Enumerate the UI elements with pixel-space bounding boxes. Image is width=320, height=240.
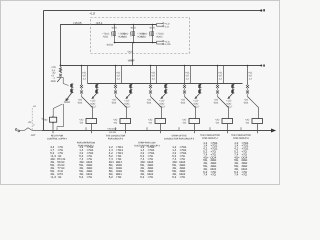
svg-text:-VΩ,7: -VΩ,7: [90, 105, 97, 108]
transistor Q10: [66, 93, 72, 101]
wire table 2 leader tick: [85, 127, 87, 130]
svg-text:RELAY FOR: RELAY FOR: [51, 134, 64, 137]
node relay K1 label: [79, 119, 84, 125]
svg-text:-5Ω4: -5Ω4: [243, 102, 249, 105]
node relay K10 label: [44, 118, 48, 121]
node contact labels group 6: [243, 99, 249, 105]
wire bus A to rail B connector group 5: [223, 66, 225, 84]
wire to relay K4: [195, 108, 197, 119]
svg-text:-5Ω4: -5Ω4: [111, 102, 117, 105]
svg-text:+1,Ω: +1,Ω: [165, 23, 170, 26]
wire group 2 tap: [115, 65, 117, 85]
relay K5: [222, 119, 233, 124]
wire +15 rail: [61, 25, 157, 66]
wire K5 to return bus: [227, 124, 229, 134]
contact S2b: [114, 91, 117, 97]
node cabinet boundary dashed: [31, 108, 33, 130]
node table 5 wire list: [172, 145, 187, 179]
node return bus labels: [107, 128, 117, 134]
svg-text:+7Ω: +7Ω: [116, 175, 122, 179]
wire distribution bus A: [60, 65, 265, 67]
svg-text:-VΩ,7: -VΩ,7: [124, 105, 131, 108]
svg-text:/V5Ω: /V5Ω: [122, 36, 127, 39]
node relay K4 label: [182, 119, 187, 125]
node table 4 wire list: [140, 145, 155, 179]
node table 2 wire list: [79, 145, 94, 179]
node input labels: [28, 105, 44, 137]
svg-text:FOR OPERATION: FOR OPERATION: [77, 141, 96, 144]
svg-text:/V5Ω: /V5Ω: [103, 36, 108, 39]
svg-text:2ΩΩ1: 2ΩΩ1: [64, 101, 71, 104]
node relay K3 label: [148, 119, 153, 125]
wire group 1 tap: [81, 65, 83, 85]
resistor value label R31: [140, 33, 147, 39]
node relay K5 label: [215, 119, 220, 125]
node junction bottom B3: [152, 42, 154, 44]
svg-text:-1,Ω: -1,Ω: [165, 25, 170, 28]
svg-text:FOR GROUP 2: FOR GROUP 2: [108, 137, 124, 140]
wire control link: [57, 78, 69, 86]
resistor R10 control sense chain: [59, 66, 61, 74]
contact S4a: [183, 85, 186, 91]
node coil labels group 5: [226, 99, 233, 108]
svg-text:+7Ω: +7Ω: [241, 173, 247, 177]
node -3011 label B2: [130, 27, 136, 30]
resistor R11: [111, 31, 112, 36]
node junction top B1: [114, 24, 116, 26]
resistor value label R21: [121, 33, 128, 39]
wire table 7 leader tick: [240, 127, 242, 130]
capacitor value label C11: [118, 33, 126, 39]
svg-text:+VΩΩ: +VΩΩ: [128, 59, 135, 62]
wire bus A to rail B connector group 2: [121, 66, 123, 84]
svg-text:-5Ω4: -5Ω4: [77, 102, 83, 105]
svg-text:7,4: 7,4: [234, 173, 238, 177]
node +V00 label: [128, 59, 135, 62]
svg-text:THE CONDUCTOR: THE CONDUCTOR: [200, 134, 220, 137]
node table 6 caption: [200, 134, 220, 140]
node table 3 caption: [106, 134, 126, 140]
svg-text:5,2: 5,2: [140, 175, 144, 179]
wire return bus: [42, 129, 276, 133]
svg-text:-1,ΩΩ: -1,ΩΩ: [165, 43, 171, 46]
node table 3 wire list: [109, 145, 124, 179]
wire contact diagonal group 1: [82, 97, 93, 108]
node table 6 wire list: [203, 141, 218, 177]
resistor R31: [149, 31, 150, 36]
svg-text:9ΩΩ4: 9ΩΩ4: [156, 36, 163, 39]
node group 6 bus labels: [248, 72, 253, 81]
svg-text:5,2: 5,2: [109, 175, 113, 179]
capacitor C21: [132, 25, 134, 43]
node contact labels group 1: [77, 99, 83, 105]
wire lower rail of filter: [115, 42, 157, 44]
relay K2: [120, 119, 131, 124]
contact S6a: [246, 85, 249, 91]
svg-text:+15,1: +15,1: [95, 21, 103, 25]
wire to relay K3: [161, 108, 163, 119]
wire control to relay: [53, 104, 62, 116]
svg-text:FOR GROUP-5: FOR GROUP-5: [233, 137, 249, 140]
wire table 3 leader tick: [115, 127, 117, 130]
node coil labels group 3: [159, 99, 166, 108]
terminal fork upper +1,0 / -1,0: [157, 23, 170, 29]
node -3011 label B3: [149, 27, 155, 30]
wire +18 supply bus: [44, 9, 265, 11]
node table 1 wire list: [50, 145, 66, 179]
node control sense labels: [51, 66, 57, 83]
svg-text:+7Ω: +7Ω: [179, 175, 185, 179]
wire input lead: [20, 128, 44, 131]
wire to relay K2: [126, 108, 128, 119]
dashed enclosure filter unit: [91, 18, 190, 54]
svg-text:5,2: 5,2: [172, 175, 176, 179]
contact S6b: [246, 91, 249, 97]
svg-text:-VΩ,7: -VΩ,7: [159, 105, 166, 108]
svg-text:+1,8: +1,8: [89, 12, 95, 16]
svg-text:-VΩ,7: -VΩ,7: [193, 105, 200, 108]
wire contact diagonal group 2: [116, 97, 127, 108]
wire left frame rail: [43, 11, 45, 131]
svg-text:-ΩΩ2: -ΩΩ2: [127, 50, 133, 53]
node contact labels group 3: [146, 99, 152, 105]
terminal fork lower +1,0 / -1,00: [157, 40, 171, 46]
node contact labels group 2: [111, 99, 117, 105]
svg-text:4ΩΩ: 4ΩΩ: [51, 80, 56, 83]
wire K1 to return bus: [91, 124, 93, 134]
node +18 label: [89, 12, 95, 16]
contact control chain: [57, 74, 62, 82]
wire table 5 leader tick: [178, 127, 180, 130]
node junction bottom B1: [114, 42, 116, 44]
relay K3: [155, 119, 166, 124]
resistor R21: [130, 31, 131, 36]
contact S3b: [149, 91, 152, 97]
transistor Q1: [92, 94, 97, 99]
svg-text:+1,3: +1,3: [50, 175, 56, 179]
inductor L2 group coil: [129, 84, 132, 94]
node table 5 caption: [164, 134, 195, 140]
wire table 6 leader tick: [209, 127, 211, 130]
node group 3 bus labels: [151, 72, 156, 81]
capacitor value label C21: [137, 33, 145, 39]
node coil labels group 1: [90, 99, 97, 108]
inductor L5 group coil: [231, 84, 234, 94]
svg-text:ΩΩΤ: ΩΩΤ: [31, 134, 36, 137]
inductor L10 control coil: [70, 84, 73, 94]
node +15,05 label: [73, 21, 82, 25]
wire bus A to rail B connector group 3: [156, 66, 158, 84]
inductor L1 group coil: [95, 84, 98, 94]
transistor Q3: [161, 94, 166, 99]
node junction top B3: [152, 24, 154, 26]
svg-text:-3ΩΩ4: -3ΩΩ4: [106, 43, 113, 46]
svg-text:7,4: 7,4: [203, 173, 207, 177]
contact S1a: [80, 85, 83, 91]
resistor value label R11: [102, 33, 109, 39]
svg-text:/V5Ω: /V5Ω: [141, 36, 146, 39]
svg-text:ΩΩ: ΩΩ: [44, 118, 48, 121]
node table 1 caption: [47, 134, 67, 140]
wire bus A to rail B connector group 4: [190, 66, 192, 84]
wire filter output feed: [132, 43, 134, 66]
node junction bottom B2: [133, 42, 135, 44]
wire control aux loop: [57, 104, 64, 127]
node group 5 bus labels: [218, 72, 223, 81]
wire to relay K5: [228, 108, 230, 119]
relay K1: [86, 119, 97, 124]
inductor L4 group coil: [198, 84, 201, 94]
wire K4 to return bus: [194, 124, 196, 134]
relay K10 control supply relay: [50, 116, 57, 124]
svg-text:STRIP OF THE: STRIP OF THE: [171, 134, 187, 137]
node relay K6 label: [245, 119, 250, 125]
wire contact diagonal group 4: [185, 97, 196, 108]
wire contact diagonal group 5: [218, 97, 229, 108]
node group 1 bus labels: [82, 72, 87, 81]
svg-text:-Ω: -Ω: [41, 118, 44, 121]
svg-text:+1,Ω: +1,Ω: [165, 40, 170, 43]
capacitor value label C31: [156, 33, 164, 39]
wire to relay K6: [258, 108, 260, 119]
wire K2 to return bus: [125, 124, 127, 134]
node group 4 bus labels: [185, 72, 190, 81]
wire K6 to return bus: [257, 124, 259, 134]
wire group 3 tap: [150, 65, 152, 85]
relay K6: [252, 119, 263, 124]
svg-text:+7Ω: +7Ω: [86, 175, 92, 179]
svg-text:-ΩΩ ΩΩ: -ΩΩ ΩΩ: [109, 131, 117, 134]
transistor Q2: [126, 94, 131, 99]
svg-text:+15,05: +15,05: [73, 21, 82, 25]
node -3011 label B1: [111, 27, 117, 30]
svg-text:-5Ω4: -5Ω4: [213, 102, 219, 105]
node contact labels group 5: [213, 99, 219, 105]
node table 7 wire list: [234, 141, 249, 177]
wire table 4 leader tick: [146, 127, 148, 130]
relay K4: [189, 119, 200, 124]
transistor Q5: [228, 94, 233, 99]
wire contact diagonal group 6: [248, 97, 259, 108]
node table 4 caption: [134, 141, 160, 147]
svg-text:-5Ω4: -5Ω4: [146, 102, 152, 105]
wire table 1 leader tick: [56, 127, 58, 130]
node control coil labels: [64, 98, 71, 104]
svg-text:THE CONDUCTOR: THE CONDUCTOR: [231, 134, 251, 137]
wire group 4 tap: [184, 65, 186, 85]
contact S2a: [114, 85, 117, 91]
node coil labels group 2: [124, 99, 131, 108]
svg-text:+7Ω: +7Ω: [147, 175, 153, 179]
wire group 5 tap: [217, 65, 219, 85]
wire bus A to rail B connector group 1: [87, 66, 89, 84]
wire K3 to return bus: [160, 124, 162, 134]
terminal X1 input: [15, 129, 19, 132]
node -000 label: [128, 60, 134, 63]
node coil labels group 4: [193, 99, 200, 108]
svg-text:-VΩ,7: -VΩ,7: [226, 105, 233, 108]
capacitor C31: [151, 25, 153, 43]
transistor Q4: [195, 94, 200, 99]
capacitor C11: [113, 25, 115, 43]
node table 2 caption: [77, 141, 96, 147]
svg-text:CONDUCTOR FOR GROUP 2: CONDUCTOR FOR GROUP 2: [164, 137, 195, 140]
svg-text:STRIP FOR CON-: STRIP FOR CON-: [138, 141, 156, 144]
contact S5b: [216, 91, 219, 97]
node -3004 label: [106, 43, 113, 46]
svg-text:+Ω: +Ω: [33, 105, 36, 108]
contact S4b: [183, 91, 186, 97]
svg-text:+7Ω: +7Ω: [210, 173, 216, 177]
svg-text:CONTROL SUPPLY: CONTROL SUPPLY: [47, 137, 67, 140]
contact S3a: [149, 85, 152, 91]
contact S5a: [216, 85, 219, 91]
svg-text:-5Ω4: -5Ω4: [180, 102, 186, 105]
node relay K2 label: [113, 119, 118, 125]
wire group 6 tap: [247, 65, 249, 85]
node group 2 bus labels: [116, 72, 121, 81]
inductor L3 group coil: [164, 84, 167, 94]
svg-text:THE CONDUCTOR: THE CONDUCTOR: [106, 134, 126, 137]
wire auxiliary rail B: [88, 83, 243, 85]
wire K10 to return bus: [52, 123, 54, 133]
node contact labels group 4: [180, 99, 186, 105]
wire to relay K1: [92, 108, 94, 119]
node +15,1 label: [95, 21, 103, 25]
node -002 label: [127, 50, 133, 53]
node junction top B2: [133, 24, 135, 26]
svg-text:5,2: 5,2: [79, 175, 83, 179]
node table 7 caption: [231, 134, 251, 140]
svg-text:FOR GROUP-4: FOR GROUP-4: [202, 137, 218, 140]
contact S1b: [80, 91, 83, 97]
wire contact diagonal group 3: [151, 97, 162, 108]
